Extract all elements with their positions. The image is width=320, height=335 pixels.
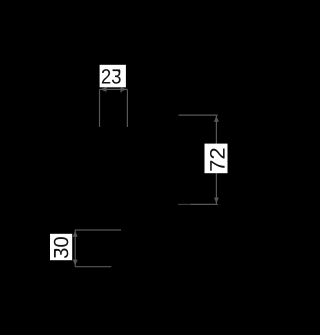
dimension 30: bottom extension line <box>75 266 111 268</box>
dimension 30: dimension line <box>74 230 76 267</box>
dimension 23: right extension line <box>126 89 128 127</box>
dimension 72: label text "72" (rotated) <box>210 148 225 170</box>
dimension 72: dimension line <box>215 115 217 204</box>
dimension 23: left extension line <box>99 89 101 127</box>
dimension 30: top extension line <box>75 229 121 231</box>
dimension 23: dimension line <box>100 88 128 90</box>
dimension 72: top extension line <box>179 114 218 116</box>
dimension 72: top arrowhead <box>214 116 218 122</box>
dimension 72: bottom extension line (dim segment) <box>178 203 191 205</box>
dimension 23: label box <box>100 65 126 88</box>
dimension 72: bottom extension line <box>191 203 218 205</box>
dimension 23: right arrowhead <box>120 87 126 92</box>
dimension 30: bottom arrowhead <box>73 260 77 266</box>
dimension 30: label box <box>50 234 72 260</box>
dimension 23: label text "23" <box>102 69 121 84</box>
dimension 30: top arrowhead <box>73 231 77 237</box>
dimension 72: bottom arrowhead <box>214 198 218 204</box>
dimension 72: label box <box>205 144 228 174</box>
dimension 23: left arrowhead <box>100 87 106 91</box>
dimension 30: label text "30" (rotated) <box>54 237 69 258</box>
